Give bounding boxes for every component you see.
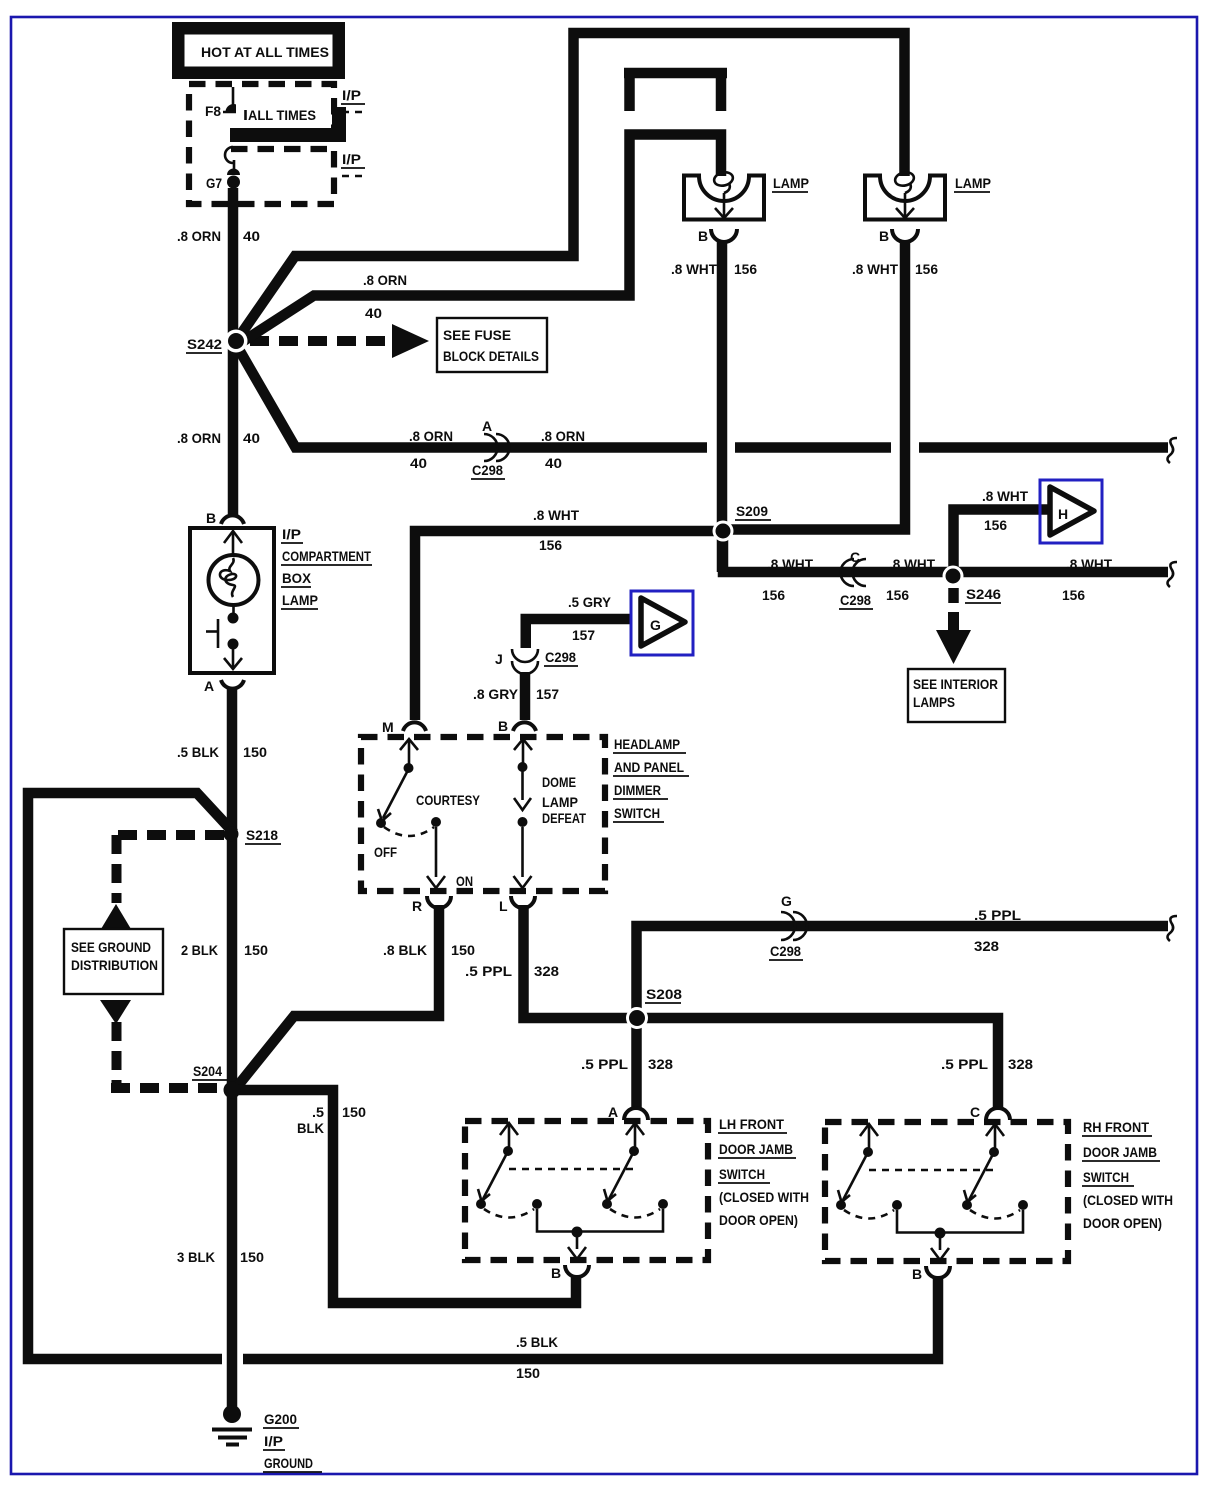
wire I/P lamp A to S218 (.5 BLK 150) bbox=[227, 689, 238, 834]
wire lamp1 B down (.8 WHT 156) bbox=[717, 240, 728, 572]
svg-text:SWITCH: SWITCH bbox=[1083, 1169, 1129, 1185]
svg-text:DEFEAT: DEFEAT bbox=[542, 810, 586, 826]
svg-text:156: 156 bbox=[1062, 587, 1085, 603]
svg-text:S246: S246 bbox=[966, 586, 1001, 602]
wire .8 WHT 156 from dimmer M to S209 bbox=[415, 531, 723, 720]
lamp 2 (courtesy lamp) bbox=[865, 170, 991, 219]
connector B of LH door jamb switch bbox=[565, 1265, 589, 1277]
splice G7 bbox=[227, 176, 240, 189]
I/P compartment box lamp bbox=[190, 528, 274, 673]
svg-text:LAMP: LAMP bbox=[542, 794, 578, 810]
svg-text:.8 WHT: .8 WHT bbox=[1066, 556, 1112, 572]
dimmer switch courtesy contacts bbox=[374, 739, 481, 889]
LH jamb switch contacts bbox=[476, 1123, 668, 1259]
svg-text:LAMP: LAMP bbox=[773, 175, 809, 191]
label RH FRONT DOOR JAMB SWITCH bbox=[1082, 1119, 1173, 1231]
svg-text:.8 GRY: .8 GRY bbox=[473, 686, 519, 702]
svg-text:.5 PPL: .5 PPL bbox=[581, 1056, 628, 1072]
node S204 dot bbox=[224, 1082, 241, 1099]
label LH FRONT DOOR JAMB SWITCH bbox=[718, 1116, 809, 1228]
svg-text:BLK: BLK bbox=[297, 1120, 324, 1136]
svg-text:SEE GROUND: SEE GROUND bbox=[71, 939, 151, 955]
svg-text:I/P: I/P bbox=[282, 526, 301, 542]
connector C298 cavity A bbox=[471, 418, 510, 479]
svg-text:.8 ORN: .8 ORN bbox=[177, 430, 221, 446]
wire .5 GRY 157 to G bbox=[526, 619, 631, 648]
svg-text:150: 150 bbox=[244, 942, 268, 958]
wire S246 up to H (.8 WHT 156) bbox=[954, 510, 1049, 582]
dashed lead S246 to interior lamps arrow bbox=[948, 588, 959, 604]
wire S242 branch 3, .8 ORN 40 to C298-A and right edge bbox=[237, 346, 1168, 448]
svg-text:.5 BLK: .5 BLK bbox=[516, 1334, 558, 1350]
fuse F8 lead wire bbox=[232, 87, 235, 105]
svg-text:150: 150 bbox=[451, 942, 475, 958]
reference box SEE FUSE BLOCK DETAILS bbox=[437, 318, 547, 372]
svg-text:B: B bbox=[698, 228, 708, 244]
svg-text:.5 PPL: .5 PPL bbox=[941, 1056, 988, 1072]
reference box SEE GROUND DISTRIBUTION bbox=[64, 929, 163, 994]
connector B of lamp 2 bbox=[892, 229, 918, 242]
G7 terminal lead bbox=[233, 160, 236, 170]
wire break squiggle right edge of ORN wire bbox=[1168, 438, 1178, 463]
svg-text:LAMPS: LAMPS bbox=[913, 694, 955, 710]
svg-text:.8 BLK: .8 BLK bbox=[383, 942, 427, 958]
power feed box HOT AT ALL TIMES bbox=[172, 22, 345, 79]
svg-text:.8 ORN: .8 ORN bbox=[541, 428, 585, 444]
RH front door jamb switch dashed box bbox=[825, 1122, 1068, 1261]
svg-text:I/P: I/P bbox=[342, 151, 361, 167]
svg-text:156: 156 bbox=[915, 261, 938, 277]
arrow to see interior lamps bbox=[936, 612, 971, 664]
wire break squiggle right edge of 328 wire bbox=[1168, 916, 1178, 941]
wire S208 up to C298-G and right edge (.5 PPL 328) bbox=[637, 926, 1169, 1018]
svg-text:.8 ORN: .8 ORN bbox=[177, 228, 221, 244]
node S218 dot bbox=[224, 827, 239, 842]
dimmer switch dome lamp defeat contacts bbox=[514, 739, 587, 888]
svg-text:G7: G7 bbox=[206, 175, 222, 191]
svg-text:LAMP: LAMP bbox=[282, 592, 318, 608]
connector B of I/P compartment box lamp bbox=[221, 515, 244, 524]
svg-text:S208: S208 bbox=[646, 986, 682, 1002]
arrowhead down from ground distribution box bbox=[100, 1000, 131, 1024]
svg-text:.8 WHT: .8 WHT bbox=[889, 556, 935, 572]
svg-text:DIMMER: DIMMER bbox=[614, 782, 661, 798]
svg-text:.8 WHT: .8 WHT bbox=[533, 507, 579, 523]
wire bottom .5 BLK 150 run to RH door jamb B bbox=[243, 1279, 938, 1359]
connector C298 cavity J bbox=[495, 649, 578, 674]
svg-text:C: C bbox=[970, 1104, 980, 1120]
svg-text:156: 156 bbox=[734, 261, 757, 277]
svg-text:156: 156 bbox=[539, 537, 562, 553]
connector cavity at G7 bbox=[225, 147, 233, 163]
connector A of LH door jamb switch bbox=[624, 1108, 648, 1120]
svg-text:2 BLK: 2 BLK bbox=[181, 942, 218, 958]
svg-text:I/P: I/P bbox=[342, 87, 361, 103]
svg-text:COMPARTMENT: COMPARTMENT bbox=[282, 548, 371, 564]
svg-text:BLOCK DETAILS: BLOCK DETAILS bbox=[443, 348, 539, 364]
svg-text:C298: C298 bbox=[545, 649, 576, 665]
lamp 1 (courtesy lamp) bbox=[684, 170, 809, 219]
svg-text:LAMP: LAMP bbox=[955, 175, 991, 191]
svg-text:40: 40 bbox=[243, 430, 260, 446]
svg-text:F8: F8 bbox=[205, 103, 221, 119]
svg-text:(CLOSED WITH: (CLOSED WITH bbox=[1083, 1192, 1173, 1208]
svg-text:R: R bbox=[412, 898, 422, 914]
destination symbol G bbox=[631, 591, 693, 655]
svg-text:3 BLK: 3 BLK bbox=[177, 1249, 215, 1265]
G7 terminal bbox=[227, 169, 240, 175]
LH front door jamb switch dashed box bbox=[465, 1121, 708, 1260]
svg-text:150: 150 bbox=[240, 1249, 264, 1265]
svg-text:SEE INTERIOR: SEE INTERIOR bbox=[913, 676, 998, 692]
svg-text:A: A bbox=[482, 418, 492, 434]
svg-text:C298: C298 bbox=[770, 943, 801, 959]
svg-text:40: 40 bbox=[365, 305, 382, 321]
connector C298 cavity C bbox=[839, 549, 873, 609]
svg-text:328: 328 bbox=[648, 1056, 673, 1072]
svg-text:B: B bbox=[879, 228, 889, 244]
node S242 dot bbox=[225, 330, 248, 353]
fuse F8 element bbox=[226, 104, 242, 112]
connector A of I/P compartment box lamp bbox=[221, 680, 244, 689]
wire break squiggle right edge of 156 wire bbox=[1168, 562, 1178, 587]
svg-text:.8 ORN: .8 ORN bbox=[409, 428, 453, 444]
svg-text:DOOR JAMB: DOOR JAMB bbox=[719, 1141, 793, 1157]
arrowhead up to S218 branch bbox=[101, 904, 131, 929]
svg-text:.8 WHT: .8 WHT bbox=[767, 556, 813, 572]
wire G7 to S242 (.8 ORN 40) bbox=[228, 188, 239, 341]
wire S208 right to RH door jamb C (.5 PPL 328) bbox=[637, 1018, 998, 1108]
svg-text:156: 156 bbox=[762, 587, 785, 603]
svg-text:328: 328 bbox=[1008, 1056, 1033, 1072]
svg-text:GROUND: GROUND bbox=[264, 1455, 313, 1471]
svg-text:DOOR OPEN): DOOR OPEN) bbox=[1083, 1215, 1162, 1231]
RH jamb switch contacts bbox=[836, 1124, 1028, 1260]
svg-text:B: B bbox=[551, 1265, 561, 1281]
svg-text:.5 GRY: .5 GRY bbox=[568, 594, 612, 610]
svg-text:328: 328 bbox=[974, 938, 999, 954]
fuse block dashed box (I/P fuse block) bbox=[189, 84, 334, 204]
svg-text:DOME: DOME bbox=[542, 774, 576, 790]
svg-text:AND PANEL: AND PANEL bbox=[614, 759, 684, 775]
svg-text:.8 WHT: .8 WHT bbox=[852, 261, 898, 277]
connector C of RH door jamb switch bbox=[986, 1108, 1010, 1120]
svg-text:B: B bbox=[206, 510, 216, 526]
wire S242 branch 1 and lamp2 feed run (.8 ORN) bbox=[239, 33, 905, 337]
connector B of RH door jamb switch bbox=[926, 1266, 950, 1278]
scan artifact: duplicated HOT AT ALL TIMES box fragment bbox=[230, 97, 346, 142]
svg-text:C: C bbox=[850, 549, 860, 565]
wire dimmer R to S204 (.8 BLK 150) bbox=[236, 905, 439, 1088]
svg-text:A: A bbox=[204, 678, 214, 694]
svg-text:RH FRONT: RH FRONT bbox=[1083, 1119, 1149, 1135]
label I/P fuse block (upper) bbox=[341, 87, 366, 112]
connector L of dimmer switch bbox=[511, 896, 535, 908]
svg-text:157: 157 bbox=[572, 627, 595, 643]
svg-text:G: G bbox=[781, 893, 792, 909]
svg-text:328: 328 bbox=[534, 963, 559, 979]
svg-text:C298: C298 bbox=[472, 462, 503, 478]
svg-text:SWITCH: SWITCH bbox=[614, 805, 660, 821]
svg-text:156: 156 bbox=[886, 587, 909, 603]
svg-text:157: 157 bbox=[536, 686, 559, 702]
label I/P fuse block (lower) bbox=[341, 151, 366, 176]
svg-text:J: J bbox=[495, 651, 503, 667]
svg-text:COURTESY: COURTESY bbox=[416, 792, 481, 808]
label I/P COMPARTMENT BOX LAMP bbox=[281, 526, 372, 609]
svg-text:B: B bbox=[498, 718, 508, 734]
wire .8 GRY 157 to dimmer B bbox=[520, 672, 531, 720]
wire S242 to I/P lamp B (.8 ORN 40) bbox=[228, 341, 239, 515]
svg-text:G: G bbox=[650, 617, 661, 633]
wire lamp2 B down (.8 WHT 156) bbox=[723, 240, 905, 530]
svg-text:LH FRONT: LH FRONT bbox=[719, 1116, 784, 1132]
svg-text:40: 40 bbox=[545, 455, 562, 471]
svg-text:C298: C298 bbox=[840, 592, 871, 608]
dashed wire ground distribution to S204 bbox=[111, 1022, 224, 1088]
svg-text:40: 40 bbox=[410, 455, 427, 471]
svg-text:.5 PPL: .5 PPL bbox=[974, 907, 1021, 923]
node S246 dot bbox=[943, 566, 964, 587]
arrowhead to see fuse block details bbox=[392, 324, 429, 358]
wire S218 to S204 (2 BLK 150) bbox=[227, 834, 238, 1090]
ground G200 bbox=[212, 1405, 322, 1472]
svg-text:S242: S242 bbox=[187, 336, 222, 352]
svg-text:.8 WHT: .8 WHT bbox=[982, 488, 1028, 504]
wire S242 branch 2 and lamp1 feed run (.8 ORN 40) bbox=[239, 135, 721, 345]
svg-text:HEADLAMP: HEADLAMP bbox=[614, 736, 680, 752]
headlamp and panel dimmer switch dashed box bbox=[361, 737, 605, 891]
svg-text:150: 150 bbox=[243, 744, 267, 760]
wire ground loop S218 to bottom run bbox=[28, 793, 234, 1359]
svg-text:.8 ORN: .8 ORN bbox=[363, 272, 407, 288]
svg-text:.5: .5 bbox=[312, 1104, 324, 1120]
node S209 dot bbox=[713, 521, 734, 542]
svg-text:SWITCH: SWITCH bbox=[719, 1166, 765, 1182]
dashed arrow wire to fuse block details bbox=[250, 336, 392, 346]
label HEADLAMP AND PANEL DIMMER SWITCH bbox=[613, 736, 689, 822]
svg-text:G200: G200 bbox=[264, 1411, 297, 1427]
svg-text:S218: S218 bbox=[246, 827, 278, 843]
connector B of lamp 1 bbox=[711, 229, 737, 242]
svg-text:.5 PPL: .5 PPL bbox=[465, 963, 512, 979]
node S208 dot bbox=[626, 1007, 648, 1029]
destination symbol H bbox=[1040, 480, 1102, 543]
svg-text:HOT AT ALL TIMES: HOT AT ALL TIMES bbox=[201, 44, 329, 60]
svg-text:S209: S209 bbox=[736, 503, 768, 519]
svg-text:150: 150 bbox=[516, 1365, 540, 1381]
svg-text:M: M bbox=[382, 719, 394, 735]
wire S204 branch to LH door jamb B (.5 BLK 150) bbox=[232, 1090, 576, 1303]
wire S209 down to C row (.8 WHT 156) bbox=[723, 531, 1168, 572]
scan artifact: duplicated lamp1 feed staple bbox=[624, 73, 727, 111]
svg-text:B: B bbox=[912, 1266, 922, 1282]
svg-text:.5 BLK: .5 BLK bbox=[177, 744, 219, 760]
reference box SEE INTERIOR LAMPS bbox=[908, 669, 1005, 722]
svg-text:ON: ON bbox=[456, 873, 473, 889]
wire S204 to G200 (3 BLK 150) bbox=[227, 1090, 238, 1412]
connector M of dimmer switch bbox=[403, 722, 426, 731]
wire S208 down to LH door jamb A (.5 PPL 328) bbox=[631, 1018, 642, 1108]
svg-text:A: A bbox=[608, 1104, 618, 1120]
svg-text:BOX: BOX bbox=[282, 570, 312, 586]
svg-text:40: 40 bbox=[243, 228, 260, 244]
svg-text:(CLOSED WITH: (CLOSED WITH bbox=[719, 1189, 809, 1205]
svg-text:DOOR JAMB: DOOR JAMB bbox=[1083, 1144, 1157, 1160]
connector B of dimmer switch bbox=[513, 722, 536, 731]
connector R of dimmer switch bbox=[427, 896, 451, 908]
svg-text:SEE FUSE: SEE FUSE bbox=[443, 327, 511, 343]
wire dimmer L to S208 (.5 PPL 328) bbox=[524, 905, 638, 1018]
svg-text:156: 156 bbox=[984, 517, 1007, 533]
svg-text:S204: S204 bbox=[193, 1063, 222, 1079]
svg-text:150: 150 bbox=[342, 1104, 366, 1120]
svg-text:ALL TIMES: ALL TIMES bbox=[248, 107, 316, 123]
svg-text:OFF: OFF bbox=[374, 844, 397, 860]
svg-text:DOOR OPEN): DOOR OPEN) bbox=[719, 1212, 798, 1228]
svg-text:I/P: I/P bbox=[264, 1433, 283, 1449]
svg-text:DISTRIBUTION: DISTRIBUTION bbox=[71, 957, 158, 973]
svg-text:.8 WHT: .8 WHT bbox=[671, 261, 717, 277]
dashed wire S218 to ground distribution reference bbox=[111, 835, 224, 903]
connector C298 cavity G bbox=[769, 893, 807, 960]
svg-text:H: H bbox=[1058, 506, 1068, 522]
svg-text:L: L bbox=[499, 898, 508, 914]
